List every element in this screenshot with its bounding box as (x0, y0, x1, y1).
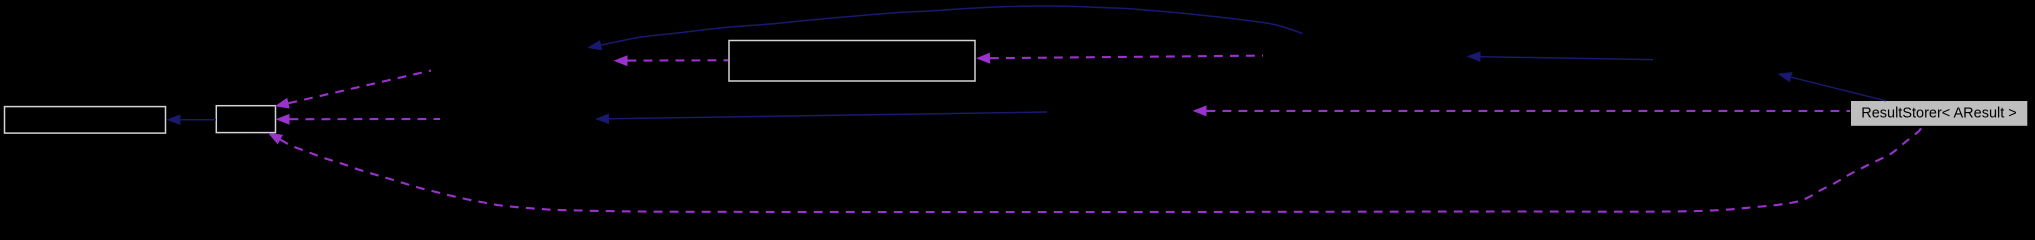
edge E2 usage arrow into B2 top-right (dashed purple diagonal) (275, 71, 431, 109)
edge E3 usage arrow into B2 right (dashed purple horizontal) (276, 114, 441, 125)
edge E1 inheritance arrow B2 to B1 (solid blue) (166, 114, 216, 125)
node box B3 (wide class, top middle) (729, 41, 975, 82)
edge E9 inheritance arrow from B4 top to hidden node (solid blue) (1778, 72, 1887, 101)
svg-text:ResultStorer< AResult >: ResultStorer< AResult > (1861, 106, 2017, 122)
edge E5 long inheritance curve across top (solid blue) (587, 6, 1302, 50)
node B4 ResultStorer< AResult > (current node, grey) (1851, 101, 2027, 126)
edge E6 usage arrow from B3 left to hidden node (dashed purple) (614, 55, 729, 66)
edge E7 usage arrow into B3 right (dashed purple) (976, 53, 1263, 64)
edge E8 inheritance arrow between hidden nodes (solid blue) (1467, 51, 1654, 62)
edge E11 inheritance arrow between hidden nodes mid (solid blue) (595, 112, 1047, 124)
edge E10 usage arrow from B4 left to hidden node (dashed purple) (1193, 105, 1851, 116)
node box B2 (small derived class) (216, 106, 275, 133)
node box B1 (base class, far left) (5, 107, 166, 134)
edge E4 long usage curve from B4 bottom to B2 bottom-right (dashed purple) (268, 127, 1921, 212)
